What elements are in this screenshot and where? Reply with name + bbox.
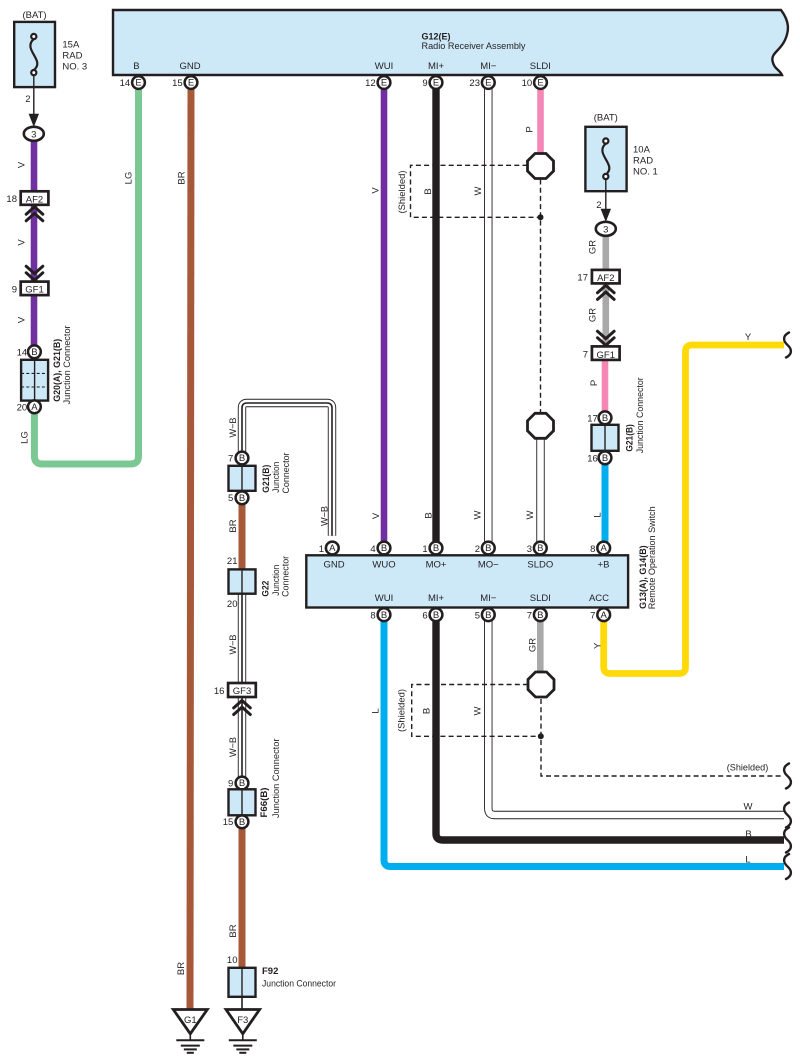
shield junction dot top (538, 214, 544, 220)
pin 7(B) circle (left G21B) (236, 452, 249, 465)
junction connector F66(B) box (229, 789, 256, 815)
svg-text:B: B (381, 543, 387, 554)
junction connector G22 box (229, 569, 256, 593)
svg-text:7: 7 (228, 453, 233, 464)
svg-text:17: 17 (587, 413, 598, 424)
svg-text:E: E (433, 78, 439, 89)
svg-text:LG: LG (124, 172, 135, 185)
svg-text:SLDI: SLDI (530, 593, 551, 604)
wire BR (junction connector 15B to F92 pin 10) (239, 828, 246, 968)
fuse element 15A (30, 34, 37, 75)
svg-text:NO. 1: NO. 1 (633, 166, 658, 177)
shield dashed box bottom (Shielded) around MI+/MI- (412, 685, 538, 737)
svg-text:15: 15 (172, 78, 183, 89)
shield drain dashed line (octagon 1 to octagon 2) (540, 180, 542, 413)
connector 7 GF1 box (right) (592, 346, 620, 360)
wire P (radio SLDI pin 10 to shield octagon) (537, 89, 544, 154)
svg-text:BR: BR (176, 962, 187, 975)
switch pin 6(B) circle (430, 608, 443, 621)
svg-text:B: B (381, 610, 387, 621)
svg-text:(BAT): (BAT) (22, 10, 46, 21)
svg-text:B: B (485, 610, 491, 621)
svg-text:Junction Connector: Junction Connector (271, 739, 282, 819)
svg-text:GR: GR (588, 240, 599, 254)
radio pin 10(E) circle (534, 76, 547, 89)
svg-text:3: 3 (603, 224, 608, 235)
svg-text:V: V (17, 239, 28, 246)
wire LG (radio B pin 14 to junction connector pin 20) (34, 89, 138, 464)
junction connector F92 box (229, 968, 256, 997)
switch box top pin letters (329, 543, 607, 554)
svg-text:GR: GR (528, 638, 539, 652)
svg-text:Radio Receiver Assembly: Radio Receiver Assembly (422, 41, 526, 52)
switch pin 2(B) circle (482, 542, 495, 555)
chevron above GF1 (right, pointing down) (598, 331, 615, 345)
remote operation switch box G13(A),G14(B) (306, 555, 628, 607)
svg-text:V: V (371, 512, 382, 519)
svg-text:W−B: W−B (228, 737, 239, 757)
radio pin 14(E) circle (132, 76, 145, 89)
svg-text:1: 1 (319, 544, 324, 555)
svg-text:G22: G22 (261, 581, 272, 597)
svg-text:AF2: AF2 (26, 194, 43, 205)
svg-text:Y: Y (745, 332, 752, 343)
chevron below GF3 (pointing up) (234, 701, 251, 715)
svg-text:A: A (601, 610, 608, 621)
svg-text:B: B (537, 543, 543, 554)
radio pin letters (135, 78, 543, 89)
svg-text:B: B (239, 453, 245, 464)
wire W (switch MI- pin 5B to right edge) (488, 621, 784, 815)
svg-text:SLDI: SLDI (530, 61, 551, 72)
fuse 15A RAD NO.3 box (14, 22, 55, 87)
pin 5(B) circle (left G21B) (236, 491, 249, 504)
svg-text:W: W (473, 706, 484, 715)
svg-text:15: 15 (223, 817, 234, 828)
svg-text:B: B (537, 610, 543, 621)
wire V (radio WUI pin 12 to switch WUO pin 4) (381, 89, 388, 542)
svg-text:MI−: MI− (480, 593, 497, 604)
fuse 10A RAD NO.1 box (585, 127, 626, 191)
svg-text:P: P (589, 380, 600, 386)
pin 15(B) circle (F66B) (236, 815, 249, 828)
svg-text:6: 6 (422, 611, 427, 622)
ground F3 symbol (226, 1010, 260, 1053)
svg-text:3: 3 (527, 544, 532, 555)
svg-text:20: 20 (227, 599, 238, 610)
svg-text:Connector: Connector (281, 556, 292, 597)
svg-text:L: L (745, 855, 750, 866)
svg-text:V: V (17, 161, 28, 168)
svg-text:GF1: GF1 (25, 285, 43, 296)
radio pin 23(E) circle (482, 76, 495, 89)
shield octagon 3 (SLDI bottom) (528, 672, 554, 697)
svg-text:Junction Connector: Junction Connector (635, 377, 646, 453)
svg-text:21: 21 (227, 556, 238, 567)
wire V (left fuse column, connector 3 to pin 14B) (31, 141, 38, 346)
break squiggle Y wire right edge (784, 333, 791, 358)
svg-text:L: L (593, 512, 604, 517)
wire W-B (junction connector 7B up and over to switch GND pin 1A) (242, 403, 332, 536)
svg-text:B: B (602, 453, 608, 464)
svg-text:W: W (472, 510, 483, 519)
svg-text:B: B (133, 61, 139, 72)
switch box top pin numbers (319, 544, 596, 555)
svg-text:7: 7 (527, 611, 532, 622)
svg-text:(Shielded): (Shielded) (397, 171, 408, 214)
svg-text:9: 9 (228, 778, 233, 789)
switch pin 3(B) circle (534, 542, 547, 555)
wire W (radio MI- pin 23 to switch MO- pin 2) (484, 89, 492, 542)
ground G1 symbol (173, 1010, 207, 1053)
svg-text:B: B (423, 188, 434, 194)
svg-text:Junction Connector: Junction Connector (62, 325, 73, 404)
svg-text:P: P (525, 126, 536, 132)
break squiggle B wire right edge (784, 828, 791, 853)
svg-text:BR: BR (228, 924, 239, 937)
svg-text:17: 17 (577, 273, 588, 284)
svg-text:MO−: MO− (478, 559, 499, 570)
svg-text:F66(B): F66(B) (259, 788, 270, 818)
svg-text:SLDO: SLDO (527, 559, 553, 570)
svg-text:16: 16 (587, 453, 598, 464)
radio pin 9(E) circle (430, 76, 443, 89)
pin 17(B) circle (599, 411, 612, 424)
chevron below AF2 (right, pointing up) (598, 285, 615, 299)
svg-text:B: B (433, 610, 439, 621)
pin 16(B) circle (599, 451, 612, 464)
wire BR (radio GND pin 15 to ground G1) (190, 89, 191, 1009)
svg-text:AF2: AF2 (597, 273, 614, 284)
svg-text:B: B (485, 543, 491, 554)
wire W-B (G22 pin 20 to GF3 and junction connector 9B) (238, 594, 246, 777)
svg-text:14: 14 (120, 78, 131, 89)
svg-text:WUO: WUO (372, 559, 395, 570)
svg-text:15A: 15A (62, 39, 80, 50)
svg-text:18: 18 (6, 194, 17, 205)
svg-text:B: B (424, 512, 435, 518)
radio receiver assembly box G12(E) (113, 10, 788, 75)
svg-text:BR: BR (228, 519, 239, 532)
svg-text:20: 20 (17, 402, 28, 413)
svg-text:B: B (239, 493, 245, 504)
connector ellipse 3 (left) (24, 127, 44, 141)
svg-text:W−B: W−B (228, 418, 239, 438)
svg-text:MI+: MI+ (428, 61, 445, 72)
chevron above GF1 (left, pointing down) (26, 266, 43, 280)
pin 20(A) circle (28, 400, 41, 413)
svg-text:8: 8 (370, 611, 375, 622)
svg-text:10: 10 (227, 955, 238, 966)
svg-text:7: 7 (583, 350, 588, 361)
svg-text:16: 16 (214, 686, 225, 697)
switch pin 1(A) circle (326, 542, 339, 555)
svg-text:V: V (371, 187, 382, 194)
shield junction dot bottom (538, 733, 544, 739)
svg-text:E: E (537, 78, 543, 89)
svg-text:W−B: W−B (320, 506, 331, 526)
svg-text:Y: Y (592, 642, 603, 649)
svg-text:E: E (188, 78, 194, 89)
svg-text:E: E (381, 78, 387, 89)
svg-text:W: W (525, 510, 536, 519)
svg-text:W: W (473, 186, 484, 195)
svg-text:12: 12 (365, 78, 376, 89)
svg-text:+B: +B (598, 559, 610, 570)
switch pin 5(B) circle (482, 608, 495, 621)
svg-text:B: B (433, 543, 439, 554)
wire L (switch WUI pin 8B to right edge) (384, 621, 784, 867)
arrow (right fuse lead) (601, 209, 611, 222)
svg-text:MI−: MI− (480, 61, 497, 72)
svg-text:7: 7 (590, 611, 595, 622)
svg-text:WUI: WUI (375, 593, 393, 604)
svg-text:V: V (17, 316, 28, 323)
connector 18 AF2 box (left) (21, 191, 49, 205)
radio pin 15(E) circle (185, 76, 198, 89)
switch pin 1(B) circle (430, 542, 443, 555)
svg-text:GR: GR (588, 308, 599, 322)
svg-text:1: 1 (422, 544, 427, 555)
svg-text:5: 5 (475, 611, 480, 622)
wire B (switch MI+ pin 6B to right edge) (436, 621, 784, 840)
shield dashed box top (Shielded) around MI+/MI- (411, 165, 539, 217)
switch box top pin name labels (323, 559, 609, 570)
svg-text:2: 2 (25, 94, 30, 105)
switch box bottom pin numbers (370, 611, 595, 622)
wire B (radio MI+ pin 9 to switch MO+ pin 1) (432, 89, 439, 542)
svg-text:W: W (744, 802, 753, 813)
svg-text:LG: LG (20, 431, 31, 444)
pin 9(B) circle (F66B) (236, 777, 249, 790)
lead from fuse to connector 3 (right) (605, 179, 607, 211)
svg-text:BR: BR (177, 171, 188, 184)
svg-text:3: 3 (31, 129, 36, 140)
svg-text:MO+: MO+ (426, 559, 447, 570)
svg-text:5: 5 (228, 493, 233, 504)
shield octagon 1 (SLDI top) (528, 154, 554, 179)
switch box bottom pin letters (381, 610, 608, 621)
svg-text:A: A (601, 543, 608, 554)
svg-text:(Shielded): (Shielded) (397, 689, 408, 732)
svg-text:ACC: ACC (589, 593, 609, 604)
svg-text:WUI: WUI (375, 61, 393, 72)
connector 9 GF1 box (left) (21, 282, 49, 296)
chevron below AF2 (left, pointing up) (26, 207, 43, 221)
svg-text:Connector: Connector (281, 453, 292, 494)
lead from fuse to connector 3 (left) (33, 75, 35, 116)
connector 16 GF3 box (228, 683, 256, 697)
switch pin 7(A) circle (597, 608, 610, 621)
svg-text:9: 9 (12, 284, 17, 295)
svg-text:B: B (602, 413, 608, 424)
wire GR (right fuse column, connector 3 to GF1) (602, 235, 609, 347)
svg-text:B: B (422, 708, 433, 714)
break squiggle L wire right edge (784, 854, 791, 879)
svg-text:GF1: GF1 (597, 350, 615, 361)
svg-text:B: B (31, 347, 37, 358)
svg-text:G1: G1 (184, 1015, 197, 1026)
svg-text:RAD: RAD (633, 155, 653, 166)
svg-text:B: B (239, 778, 245, 789)
svg-text:A: A (31, 402, 38, 413)
svg-text:RAD: RAD (62, 50, 82, 61)
svg-text:A: A (329, 543, 336, 554)
radio pin numbers (120, 78, 533, 89)
svg-text:GND: GND (323, 559, 344, 570)
switch box bottom pin name labels (375, 593, 609, 604)
svg-text:8: 8 (590, 544, 595, 555)
junction connector G21(B) left box (229, 466, 256, 491)
connector ellipse 3 (right) (596, 222, 616, 236)
wire lead F92 to ground F3 (241, 997, 243, 1010)
radio pin name labels (133, 61, 551, 72)
svg-text:W−B: W−B (228, 635, 239, 655)
svg-text:MI+: MI+ (428, 593, 445, 604)
svg-text:Remote Operation Switch: Remote Operation Switch (647, 506, 658, 609)
radio pin 12(E) circle (378, 76, 391, 89)
wire Y (switch ACC pin 7A to right edge) (604, 345, 784, 674)
svg-text:14: 14 (17, 347, 28, 358)
svg-text:G21(B): G21(B) (625, 424, 636, 452)
fuse element 10A (602, 138, 609, 179)
svg-text:4: 4 (370, 544, 375, 555)
switch pin 8(B) circle (378, 608, 391, 621)
svg-text:L: L (371, 708, 382, 713)
svg-text:GND: GND (179, 61, 200, 72)
svg-text:2: 2 (475, 544, 480, 555)
svg-text:2: 2 (596, 200, 601, 211)
shield drain dashed line (octagon 3 down and to right edge) (541, 699, 783, 776)
svg-text:F3: F3 (237, 1015, 248, 1026)
svg-text:NO. 3: NO. 3 (62, 61, 87, 72)
svg-text:E: E (135, 78, 141, 89)
switch pin 8(A) circle (597, 542, 610, 555)
switch pin 7(B) circle (534, 608, 547, 621)
connector 17 AF2 box (right) (592, 270, 620, 284)
svg-text:(Shielded): (Shielded) (727, 763, 769, 774)
svg-text:B: B (745, 829, 751, 840)
shield octagon 2 (SLDO) (528, 413, 554, 438)
switch pin 4(B) circle (378, 542, 391, 555)
svg-text:B: B (239, 817, 245, 828)
svg-text:9: 9 (422, 78, 427, 89)
break squiggle W wire right edge (784, 803, 791, 828)
svg-text:Junction Connector: Junction Connector (262, 979, 336, 990)
pin 14(B) circle (28, 345, 41, 358)
svg-text:10: 10 (522, 78, 533, 89)
arrow (left fuse lead) (29, 114, 39, 127)
svg-text:(BAT): (BAT) (594, 113, 618, 124)
break squiggle shielded dashed right edge (784, 764, 791, 789)
wire W (shield octagon to switch SLDO pin 3) (536, 439, 544, 542)
wire GR (switch SLDI pin 7B to shield octagon) (537, 621, 544, 673)
svg-text:GF3: GF3 (233, 686, 251, 697)
junction connector G21(B) right box (592, 425, 619, 451)
wire BR (junction connector 5B to G22 pin 21) (239, 504, 246, 570)
svg-text:E: E (485, 78, 491, 89)
junction connector G20(A),G21(B) box (21, 360, 48, 401)
svg-text:23: 23 (469, 78, 480, 89)
svg-text:10A: 10A (633, 144, 651, 155)
wire L (junction connector pin 16B to switch +B pin 8A) (602, 464, 609, 542)
svg-text:F92: F92 (262, 966, 278, 977)
wire P (GF1 to junction connector pin 17B) (602, 360, 609, 413)
